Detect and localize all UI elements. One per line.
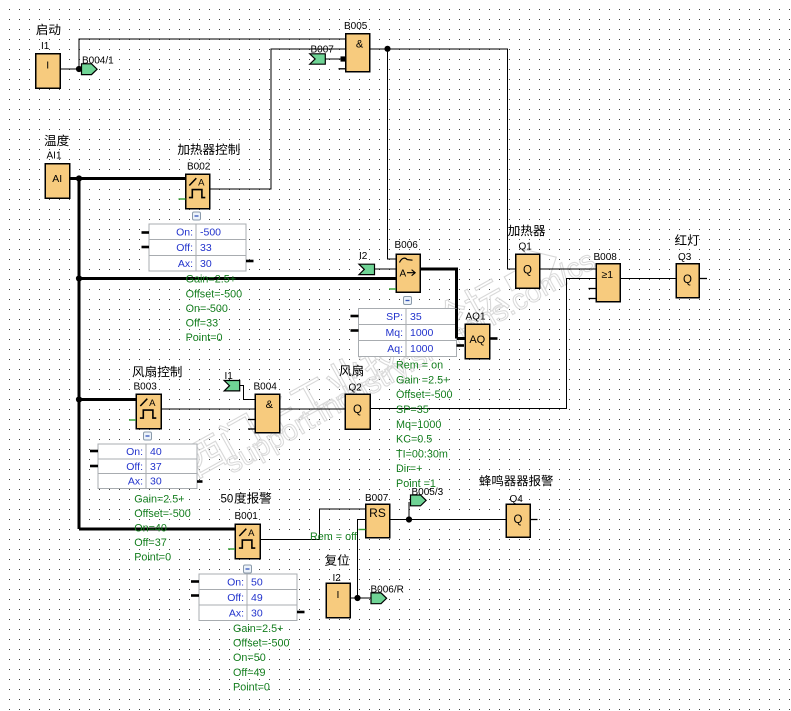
label 红灯 <box>675 234 699 246</box>
output Q2 <box>345 394 370 429</box>
svg-text:I: I <box>46 60 49 72</box>
wire AI to B003 in1 <box>79 398 136 401</box>
green params B001 <box>233 623 290 693</box>
svg-text:I2: I2 <box>333 573 342 584</box>
wire B006 out to AQ1 in <box>420 269 465 339</box>
svg-text:Off:: Off: <box>176 242 193 254</box>
svg-text:Ax:: Ax: <box>229 607 244 619</box>
wire I2 to B007 R <box>358 520 366 599</box>
stub B008 in4 <box>589 298 597 300</box>
analog output AQ1 <box>465 324 490 359</box>
svg-text:Point =1: Point =1 <box>396 478 436 490</box>
svg-text:Rem = on: Rem = on <box>396 360 443 372</box>
svg-text:B006/R: B006/R <box>371 585 404 596</box>
label 风扇控制 <box>133 366 182 378</box>
svg-text:Offset=-500: Offset=-500 <box>396 389 453 401</box>
svg-text:Gain =2.5+: Gain =2.5+ <box>396 374 449 386</box>
svg-text:Dir=+: Dir=+ <box>396 463 422 475</box>
collapse button B002 <box>193 212 201 220</box>
svg-text:A: A <box>198 177 205 188</box>
green stub B001 par <box>228 548 235 550</box>
AND B004 <box>255 394 280 433</box>
svg-text:Offset=-500: Offset=-500 <box>233 638 290 650</box>
green stub B003 par <box>129 419 136 421</box>
svg-text:49: 49 <box>251 592 263 604</box>
svg-text:Point=0: Point=0 <box>186 332 223 344</box>
svg-text:I2: I2 <box>359 251 368 262</box>
svg-text:Gain=2.5+: Gain=2.5+ <box>134 493 184 505</box>
svg-text:&: & <box>266 399 274 411</box>
svg-text:50: 50 <box>221 494 234 506</box>
svg-text:Q: Q <box>683 274 692 286</box>
wire I1 to B005 in1 <box>79 39 346 69</box>
svg-text:B008: B008 <box>594 252 618 263</box>
RS latch B007 <box>366 504 390 538</box>
svg-text:On=40: On=40 <box>134 522 167 534</box>
node AI riser junction B003 <box>76 396 82 402</box>
wire I1 connector to B004 in1 <box>240 386 256 400</box>
svg-text:B006: B006 <box>395 240 419 251</box>
stub AQ1 out <box>490 337 498 340</box>
svg-text:A: A <box>248 528 255 539</box>
svg-text:Off:: Off: <box>126 461 143 473</box>
stub B004 in4 <box>248 428 255 430</box>
svg-text:Gain=2.5+: Gain=2.5+ <box>233 623 283 635</box>
wire B002 out to B005 in2 <box>210 49 346 189</box>
stub B005 in4 <box>339 68 346 70</box>
PI controller B006 <box>396 254 420 292</box>
green stub B002 par <box>179 198 186 200</box>
svg-text:I1: I1 <box>41 41 50 52</box>
svg-text:On=-500: On=-500 <box>186 303 228 315</box>
svg-text:Off:: Off: <box>227 592 244 604</box>
connector out B005/3 <box>411 495 427 506</box>
svg-text:&: & <box>356 38 364 50</box>
svg-text:Q2: Q2 <box>349 382 363 393</box>
wire AI to B001 in1 <box>79 528 235 531</box>
svg-text:AI: AI <box>52 173 62 185</box>
svg-text:KC=0.5: KC=0.5 <box>396 434 432 446</box>
wire B004 out to Q2 in <box>280 408 346 410</box>
param table B002 <box>149 224 246 271</box>
svg-text:Mq=1000: Mq=1000 <box>396 419 441 431</box>
svg-text:50: 50 <box>251 576 263 588</box>
svg-text:A: A <box>400 268 407 279</box>
stub B004 in3 <box>248 419 255 421</box>
svg-text:On:: On: <box>176 226 193 238</box>
svg-text:Ax:: Ax: <box>178 258 193 270</box>
node AI output junction <box>76 175 82 181</box>
svg-text:Off=49: Off=49 <box>233 667 266 679</box>
green params B003 <box>134 493 191 563</box>
param table B003 <box>98 444 197 489</box>
pin marker B005 in3 <box>341 56 346 61</box>
svg-text:B007: B007 <box>311 44 335 55</box>
connector out B004/1 <box>82 64 98 75</box>
svg-text:≥1: ≥1 <box>602 269 614 281</box>
collapse button B003 <box>144 432 152 440</box>
svg-text:35: 35 <box>410 311 422 323</box>
svg-text:37: 37 <box>150 461 162 473</box>
collapse button B001 <box>244 565 252 573</box>
svg-text:1000: 1000 <box>410 343 434 355</box>
stub B008 in3 <box>589 288 597 290</box>
svg-text:RS: RS <box>369 506 386 520</box>
wire I2 connector to B006 in2 <box>375 268 397 270</box>
threshold B001 <box>235 524 260 559</box>
wire B007 out to Q4 in <box>390 519 507 521</box>
green stub B007 par <box>359 529 366 531</box>
svg-text:Q4: Q4 <box>510 494 524 505</box>
svg-text:Point=0: Point=0 <box>233 681 270 693</box>
node B005 output junction <box>384 46 390 52</box>
svg-text:Q: Q <box>353 404 362 416</box>
wire I2 out to connector <box>350 597 372 599</box>
stub Q4 out <box>530 519 538 521</box>
svg-text:40: 40 <box>150 446 162 458</box>
connector in B007 <box>310 54 326 64</box>
node AI riser junction B006 <box>76 275 82 281</box>
svg-text:B005: B005 <box>344 21 368 32</box>
wire Q1 out to B008 in1 <box>540 268 597 270</box>
svg-text:1000: 1000 <box>410 327 434 339</box>
connector in I1 at B004 <box>224 381 240 391</box>
svg-text:B004: B004 <box>254 382 278 393</box>
label 加热器控制 <box>178 143 240 155</box>
node I2 output junction <box>354 595 360 601</box>
label 蜂鸣器器报警 <box>479 475 552 486</box>
svg-text:AQ1: AQ1 <box>466 311 486 322</box>
label 温度 <box>44 135 68 147</box>
wire B001 out to B007 S <box>260 509 366 540</box>
svg-text:On:: On: <box>126 446 143 458</box>
analog input AI1 <box>45 164 70 199</box>
svg-text:Gain=2.5+: Gain=2.5+ <box>186 274 236 286</box>
svg-text:30: 30 <box>200 258 212 270</box>
OR B008 <box>596 264 620 302</box>
svg-text:B007: B007 <box>365 493 389 504</box>
wire B007 connector to B005 in3 <box>325 58 342 60</box>
svg-text:Offset=-500: Offset=-500 <box>134 508 191 520</box>
svg-text:Off=33: Off=33 <box>186 318 219 330</box>
svg-text:I: I <box>337 589 340 601</box>
svg-text:Aq:: Aq: <box>387 343 403 355</box>
svg-text:I1: I1 <box>225 371 234 382</box>
label 启动 <box>36 24 60 36</box>
wire junction to B005-3 connector <box>408 502 410 520</box>
label 加热器 <box>508 225 545 237</box>
wire B005 out to B006 in1 <box>388 49 397 259</box>
stub Q3 out <box>699 278 707 280</box>
wire B003 out to B004 in2 <box>161 408 255 410</box>
svg-text:On=50: On=50 <box>233 652 266 664</box>
svg-text:Ax:: Ax: <box>128 476 143 488</box>
AND B005 <box>346 34 370 72</box>
wire AI to B006 in3 <box>79 277 396 280</box>
threshold B002 <box>186 174 210 209</box>
svg-text:A: A <box>149 398 156 409</box>
svg-text:Offset=-500: Offset=-500 <box>186 288 243 300</box>
wire AI out to junction <box>70 177 80 180</box>
svg-text:AQ: AQ <box>469 334 485 346</box>
svg-text:SP=35: SP=35 <box>396 404 429 416</box>
svg-text:30: 30 <box>150 476 162 488</box>
svg-text:Q1: Q1 <box>519 241 533 252</box>
svg-text:B002: B002 <box>187 162 211 173</box>
wire Q2 out to B008 in2 <box>370 279 596 409</box>
svg-text:B003: B003 <box>134 381 158 392</box>
svg-text:Q3: Q3 <box>678 252 692 263</box>
wire I1 out <box>60 68 79 70</box>
output Q1 <box>516 254 540 288</box>
wire AI to B002 in1 <box>79 177 186 180</box>
threshold B003 <box>136 394 161 429</box>
node I1 output junction <box>76 66 82 72</box>
wire B008 out to Q3 in <box>620 278 676 280</box>
svg-text:B001: B001 <box>235 511 259 522</box>
input I1 <box>36 54 61 89</box>
svg-text:AI1: AI1 <box>47 151 62 162</box>
wire B006 out overlay <box>455 309 458 339</box>
svg-text:Mq:: Mq: <box>385 327 403 339</box>
collapse button B006 <box>404 297 412 305</box>
green params B002 <box>186 274 243 344</box>
param table B001 <box>199 574 297 621</box>
svg-text:On:: On: <box>227 576 244 588</box>
svg-text:Rem = off: Rem = off <box>310 531 358 543</box>
svg-text:33: 33 <box>200 242 212 254</box>
wire AI analog bus riser <box>78 179 81 530</box>
output Q4 <box>506 504 530 537</box>
svg-text:Q: Q <box>514 514 523 526</box>
green params B006 <box>396 360 453 490</box>
svg-text:B004/1: B004/1 <box>82 56 114 67</box>
svg-text:SP:: SP: <box>386 311 403 323</box>
output Q3 <box>676 264 699 298</box>
svg-text:30: 30 <box>251 607 263 619</box>
svg-text:Off=37: Off=37 <box>134 537 167 549</box>
svg-text:-500: -500 <box>200 226 221 238</box>
connector in I2 at B006 <box>359 264 375 274</box>
label 风扇 <box>340 365 363 377</box>
wire B005 out to Q1 in <box>370 49 516 269</box>
svg-text:Q: Q <box>523 264 532 276</box>
param table B006 <box>359 309 457 357</box>
svg-text:TI=00:30m: TI=00:30m <box>396 448 448 460</box>
watermark Siemens forum <box>177 237 567 481</box>
node B007 output junction <box>406 516 412 522</box>
connector out B006/R <box>371 593 387 604</box>
input I2 <box>326 583 350 618</box>
green stub B006 par <box>389 288 396 290</box>
label 复位 <box>325 554 349 566</box>
svg-text:Point=0: Point=0 <box>134 551 171 563</box>
